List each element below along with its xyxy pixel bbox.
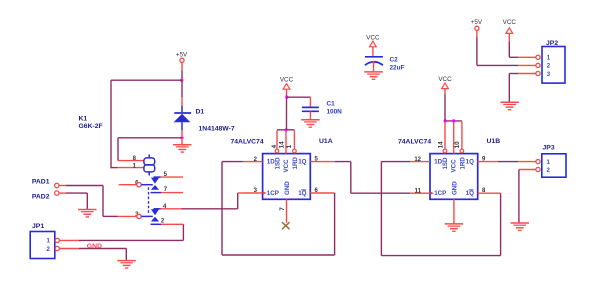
- JP3 pin1 stub: [518, 161, 536, 163]
- JP1 pin 2 number: [46, 247, 50, 253]
- pin number 7 rotated (U1A): [279, 207, 286, 211]
- pad PAD1 circle: [55, 183, 59, 187]
- svg-text:PAD1: PAD1: [32, 178, 50, 185]
- connector JP1 body: [30, 232, 55, 259]
- label K1: [79, 116, 88, 123]
- wire PAD2 to ground: [59, 193, 87, 209]
- U1B pin name GND rotated: [451, 181, 458, 195]
- ground G7 (JP2): [500, 102, 518, 109]
- wire coil pin1 horizontal: [111, 167, 144, 169]
- U1B top pin bubble right: [460, 149, 464, 153]
- pin number 1 (relay coil): [133, 163, 137, 169]
- junction U1A VCC node: [285, 128, 288, 131]
- pin number 8 (relay coil): [133, 156, 137, 162]
- svg-text:VCC: VCC: [280, 77, 294, 84]
- label G6K-2F: [79, 123, 103, 130]
- relay contact 2 down arrow: [151, 209, 159, 215]
- wire +5V down to diode: [181, 80, 183, 106]
- ground G8 (JP3): [511, 223, 529, 230]
- pin number 1 rotated: [286, 144, 293, 148]
- wire diode anode to ground: [181, 130, 183, 136]
- svg-text:1SD: 1SD: [442, 157, 449, 170]
- JP3 pin number 1: [547, 160, 551, 166]
- label JP2: [546, 40, 558, 47]
- svg-text:VCC: VCC: [438, 76, 452, 83]
- svg-text:K1: K1: [79, 116, 88, 123]
- svg-text:JP1: JP1: [32, 223, 44, 230]
- U1A pin name 1D: [267, 159, 275, 166]
- relay contact 2 common arm: [141, 215, 153, 217]
- pin number 11: [415, 188, 422, 194]
- wire vertical to relay coil pin 1: [110, 80, 112, 168]
- diode D1: [174, 106, 192, 131]
- label 100N: [327, 108, 343, 115]
- pin number 14 rotated (U1B): [438, 141, 445, 149]
- U1B pin name 1RD rotated: [459, 157, 466, 170]
- pin number 3: [135, 212, 139, 218]
- label JP1: [32, 223, 44, 230]
- svg-text:1Q: 1Q: [298, 159, 306, 166]
- junction +5V node: [180, 79, 183, 82]
- JP1 pin 1 number: [46, 239, 50, 245]
- svg-text:PAD2: PAD2: [32, 194, 50, 201]
- junction C1 tap: [285, 96, 288, 99]
- JP2 pin number 1: [547, 56, 551, 62]
- U1B GND pin stub: [453, 199, 455, 224]
- capacitor C1: [302, 97, 319, 119]
- pin number 6 (U1A): [315, 188, 319, 194]
- svg-text:GND: GND: [451, 181, 458, 195]
- JP2 pin 2 circle: [536, 63, 540, 67]
- U1A pin name 1Q: [298, 159, 306, 166]
- pin number 12: [414, 157, 421, 163]
- pin number 9: [482, 156, 486, 162]
- power +5V symbol (JP2): [471, 19, 483, 30]
- svg-text:74ALVC74: 74ALVC74: [398, 139, 431, 146]
- svg-text:12: 12: [414, 157, 421, 163]
- ground G3 (JP1): [117, 261, 135, 268]
- ground G6 (U1B): [445, 224, 463, 231]
- U1A pin name 1SD rotated: [275, 157, 282, 170]
- junction U1B VCC node a: [444, 119, 447, 122]
- wire U1A feedback 1Qbar to 1D: [222, 162, 335, 255]
- pin number 8: [482, 188, 486, 194]
- wire VCC to U1B: [444, 89, 446, 121]
- wire PAD1 to relay pin 3: [59, 186, 137, 217]
- svg-text:100N: 100N: [327, 108, 343, 115]
- label PAD2: [32, 194, 50, 201]
- JP2 pin 1 circle: [536, 55, 540, 59]
- U1B pin name VCC rotated: [450, 159, 457, 173]
- wire C1 branch: [287, 96, 311, 98]
- junction U1B VCC node b: [452, 119, 455, 122]
- svg-text:7: 7: [279, 207, 286, 211]
- svg-text:1: 1: [286, 144, 293, 148]
- wire JP2 pin3 to ground: [509, 74, 536, 103]
- wire anode junction to coil pin 8: [118, 137, 182, 139]
- label 22uF: [390, 65, 405, 72]
- ground G5 (C2): [364, 72, 382, 79]
- relay contact 2 NO line pin 4: [154, 208, 182, 210]
- U1B pin 11 (2CP) stub: [410, 192, 434, 195]
- svg-text:+5V: +5V: [471, 19, 483, 26]
- pin number 2 (relay): [161, 219, 165, 225]
- pin number 6: [135, 180, 139, 186]
- U1A pin 6 (1Q bar) stub: [310, 192, 334, 194]
- label D1: [196, 109, 205, 116]
- svg-text:VCC: VCC: [450, 159, 457, 173]
- U1A pin name 1Q bar: [298, 190, 306, 197]
- op chip U1B body: [430, 154, 478, 200]
- U1B pin name 1CP: [434, 190, 446, 197]
- U1A pin name GND rotated: [284, 181, 291, 195]
- relay contact 1 NC line pin 7: [151, 192, 184, 194]
- svg-text:C1: C1: [327, 101, 336, 108]
- svg-text:1RD: 1RD: [459, 157, 466, 170]
- JP1 pin 2 circle: [55, 246, 59, 250]
- svg-text:U1B: U1B: [487, 138, 501, 145]
- U1A pin name VCC rotated: [283, 159, 290, 173]
- relay contact 1 pin 6 circle: [137, 183, 141, 187]
- pin number 7: [164, 187, 168, 193]
- U1B pin name 1D: [434, 159, 442, 166]
- U1B pin 12 (2D) stub: [410, 161, 430, 163]
- relay contact 1 common arm: [141, 184, 153, 186]
- svg-text:14: 14: [438, 141, 445, 149]
- label C1: [327, 101, 336, 108]
- pin number 10 rotated: [454, 141, 461, 149]
- U1A pin 2 (1D) stub: [243, 161, 263, 163]
- svg-text:1CP: 1CP: [267, 190, 279, 197]
- svg-text:JP2: JP2: [546, 40, 558, 47]
- svg-text:GND: GND: [87, 243, 102, 250]
- pin number 4: [163, 204, 167, 210]
- svg-text:14: 14: [279, 141, 286, 149]
- relay K1 coil: [144, 154, 155, 175]
- svg-text:U1A: U1A: [319, 138, 333, 145]
- label 74ALVC74 (U1B): [398, 139, 431, 146]
- svg-text:+5V: +5V: [176, 52, 188, 59]
- power +5V symbol (relay rail): [176, 52, 188, 63]
- U1B pin 8 (2Qbar) stub: [478, 192, 501, 194]
- wire JP1 pin1 to relay pin 2: [59, 224, 183, 240]
- svg-text:VCC: VCC: [366, 35, 380, 42]
- U1B pin name 1Q: [466, 159, 474, 166]
- label 74ALVC74 (U1A): [231, 139, 264, 146]
- svg-text:22uF: 22uF: [390, 65, 405, 72]
- svg-text:1N4148W-7: 1N4148W-7: [199, 126, 235, 133]
- U1A pin 5 (1Q) stub: [310, 161, 335, 163]
- relay contact 2 NC line pin 2: [151, 223, 184, 225]
- relay contact 2 pin 3 circle: [137, 214, 141, 218]
- ground G2 (PAD2): [78, 210, 96, 217]
- label 1N4148W-7: [199, 126, 235, 133]
- U1A pin 7 (GND) stub: [286, 199, 288, 223]
- svg-text:11: 11: [415, 188, 422, 194]
- svg-text:GND: GND: [284, 181, 291, 195]
- wire coil pin8 horizontal: [118, 160, 144, 162]
- svg-text:JP3: JP3: [543, 144, 555, 151]
- label U1B: [487, 138, 501, 145]
- U1B pin 9 (2Q) stub: [478, 161, 498, 163]
- wire +5V stub down: [181, 62, 183, 80]
- pin number 5: [164, 172, 168, 178]
- svg-text:1RD: 1RD: [292, 157, 299, 170]
- svg-text:1: 1: [133, 163, 137, 169]
- svg-text:74ALVC74: 74ALVC74: [231, 139, 264, 146]
- U1B pin name 1SD rotated: [442, 157, 449, 170]
- pad PAD2 circle: [55, 191, 59, 195]
- wire U1A set/reset tie: [277, 129, 294, 131]
- wire +5V rail to coil pin1 (horizontal): [111, 79, 182, 81]
- label U1A: [319, 138, 333, 145]
- pin number 2: [254, 157, 258, 163]
- wire U1B feedback 2Qbar to 2D: [381, 162, 500, 256]
- pin number 14 rotated: [279, 141, 286, 149]
- connector JP3 body: [542, 154, 566, 177]
- pin number 5 (U1A): [315, 156, 319, 162]
- wire JP1 pin2 (GND net): [59, 249, 126, 261]
- no-connect X: [282, 222, 290, 229]
- wire junction to ground G1: [181, 138, 183, 145]
- U1B top pin bubble left: [443, 149, 447, 153]
- wire U1B set/reset tie: [445, 120, 462, 122]
- JP2 pin number 2: [547, 64, 551, 70]
- wire +5V to JP2 pin2: [477, 30, 536, 65]
- JP2 pin 3 circle: [536, 71, 540, 75]
- JP2 pin number 3: [547, 72, 551, 78]
- connector JP2 body: [542, 47, 565, 84]
- JP3 pin number 2: [547, 168, 551, 174]
- U1A pin 4 bubble: [275, 149, 279, 153]
- label PAD1: [32, 178, 50, 185]
- U1A pin name 1RD rotated: [292, 157, 299, 170]
- svg-text:4: 4: [271, 144, 278, 148]
- svg-text:1SD: 1SD: [275, 157, 282, 170]
- svg-text:D1: D1: [196, 109, 205, 116]
- pin number 3 (U1A): [254, 188, 258, 194]
- JP3 pin 1 circle: [536, 160, 540, 164]
- wire U1B 2Q to JP3: [498, 161, 518, 163]
- wire VCC to U1A: [286, 89, 288, 130]
- svg-text:1Q: 1Q: [466, 190, 474, 197]
- wire VCC to JP2 pin1: [509, 33, 536, 57]
- ground G4 (C1): [301, 120, 319, 127]
- net label GND: [87, 243, 102, 250]
- relay contact 1 down arrow: [151, 178, 159, 184]
- svg-text:1Q: 1Q: [298, 190, 306, 197]
- wire JP3 pin2 to ground: [519, 170, 536, 223]
- svg-text:1CP: 1CP: [434, 190, 446, 197]
- power VCC symbol (C2): [366, 35, 380, 47]
- svg-text:1Q: 1Q: [466, 159, 474, 166]
- relay contact 2 up arrow: [151, 217, 159, 222]
- U1A top pins 4,14,1 stubs: [277, 130, 294, 153]
- wire U1A 1Q to U1B 2CP: [335, 162, 410, 194]
- power VCC symbol (U1B): [438, 76, 452, 89]
- label C2: [390, 57, 399, 64]
- svg-text:10: 10: [454, 141, 461, 149]
- power VCC symbol (U1A): [280, 77, 294, 90]
- svg-text:VCC: VCC: [283, 159, 290, 173]
- label JP3: [543, 144, 555, 151]
- op chip U1A body: [263, 154, 311, 200]
- U1B pin name 1Q bar: [466, 190, 474, 197]
- JP1 pin 1 circle: [55, 238, 59, 242]
- relay contact 1 NO line pin 5: [154, 176, 184, 178]
- wire relay pin4 to U1A 1CP: [181, 193, 242, 209]
- capacitor C2 (polarized): [365, 47, 383, 72]
- relay mechanical link (dashed): [148, 187, 150, 214]
- U1A pin 3 (1CP) stub: [243, 191, 267, 194]
- U1A pin name 1CP: [267, 190, 279, 197]
- wire vertical to relay coil pin 8: [117, 138, 119, 161]
- relay contact 1 up arrow: [151, 185, 159, 190]
- U1A pin 1 bubble: [293, 149, 297, 153]
- JP3 pin 2 circle: [536, 167, 540, 171]
- U1B top pins stubs: [445, 121, 462, 153]
- svg-text:C2: C2: [390, 57, 399, 64]
- svg-text:VCC: VCC: [503, 19, 517, 26]
- svg-text:G6K-2F: G6K-2F: [79, 123, 103, 130]
- power VCC symbol (JP2): [503, 19, 517, 33]
- pin number 4 rotated: [271, 144, 278, 148]
- junction diode anode node: [180, 136, 183, 139]
- ground G1 (under D1): [173, 145, 191, 152]
- relay contact 1 common pin 6 stub: [119, 184, 137, 186]
